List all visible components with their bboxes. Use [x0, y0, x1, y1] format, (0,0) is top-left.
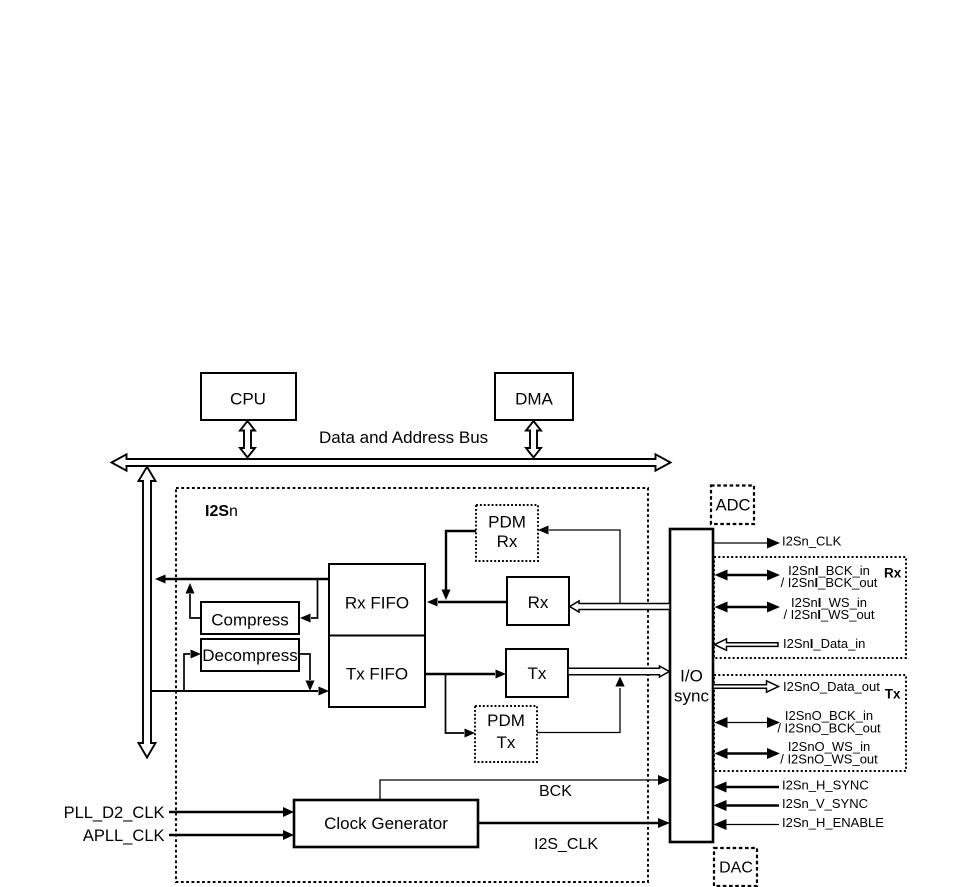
svg-text:I2S_CLK: I2S_CLK	[534, 836, 598, 853]
svg-text:DAC: DAC	[719, 860, 753, 877]
vertical bus double arrow	[139, 467, 156, 758]
svg-text:/ I2SnO_WS_out: / I2SnO_WS_out	[780, 752, 878, 767]
svg-text:/ I2SnO_BCK_out: / I2SnO_BCK_out	[777, 721, 881, 736]
pin: PLL_D2_CLK input	[64, 804, 294, 822]
wire: Rx to Rx FIFO	[427, 598, 507, 607]
svg-text:Tx: Tx	[885, 687, 901, 702]
Data and Address Bus double-headed arrow	[112, 454, 671, 470]
pin: I2SnI_BCK bidirectional	[715, 563, 878, 590]
svg-text:Data and Address Bus: Data and Address Bus	[319, 428, 488, 447]
DMA-to-bus double arrow	[526, 421, 541, 458]
svg-text:Tx FIFO: Tx FIFO	[346, 665, 408, 684]
svg-text:Rx: Rx	[528, 593, 549, 612]
svg-text:CPU: CPU	[230, 390, 266, 409]
pin: I2Sn_H_ENABLE input	[714, 815, 885, 830]
pin: I2Sn_H_SYNC input	[714, 778, 869, 793]
svg-text:/ I2SnI_BCK_out: / I2SnI_BCK_out	[781, 575, 878, 590]
wire: system bus to Decompress input	[184, 650, 201, 692]
pin: I2SnO_BCK bidirectional	[715, 708, 882, 736]
Rx block	[507, 577, 569, 625]
wire: Tx to I/O sync hollow data arrow	[568, 666, 669, 677]
CPU-to-bus double arrow	[240, 421, 255, 458]
wire: I2S_CLK from Clock Generator to I/O sync	[478, 818, 670, 853]
Tx pin group dashed box	[714, 675, 906, 771]
svg-text:Tx: Tx	[528, 664, 547, 683]
ADC block	[711, 486, 754, 525]
PDM Rx block	[476, 505, 538, 561]
DMA block	[495, 373, 573, 420]
svg-text:BCK: BCK	[539, 783, 572, 800]
svg-text:I2Sn_V_SYNC: I2Sn_V_SYNC	[782, 796, 868, 811]
svg-text:I2SnI_Data_in: I2SnI_Data_in	[783, 636, 865, 651]
svg-text:Rx FIFO: Rx FIFO	[345, 594, 409, 613]
svg-text:I2Sn_H_ENABLE: I2Sn_H_ENABLE	[782, 815, 884, 830]
wire: Rx data tap up into PDM Rx	[538, 526, 620, 604]
wire: system bus to Tx FIFO	[152, 687, 330, 696]
wire: I/O sync to Rx hollow data arrow	[570, 601, 670, 612]
CPU block	[201, 373, 296, 420]
svg-text:I2SnO_Data_out: I2SnO_Data_out	[783, 679, 880, 694]
svg-text:I2Sn_CLK: I2Sn_CLK	[782, 534, 842, 549]
svg-text:sync: sync	[674, 687, 709, 706]
wire: PDM Rx output to Rx-RxFIFO wire	[442, 531, 477, 600]
wire: Tx FIFO to Tx	[425, 670, 506, 679]
svg-text:/ I2SnI_WS_out: / I2SnI_WS_out	[783, 607, 874, 622]
svg-text:Rx: Rx	[884, 566, 902, 581]
svg-text:Rx: Rx	[497, 532, 518, 551]
svg-text:ADC: ADC	[716, 497, 751, 515]
wire: branch down to Compress input	[300, 579, 318, 623]
pin: I2SnI_Data_in hollow arrow	[715, 636, 866, 651]
wire: BCK from Clock Generator to I/O sync	[380, 775, 670, 800]
svg-text:DMA: DMA	[515, 390, 553, 409]
PDM Tx block	[475, 706, 537, 762]
Tx block	[506, 649, 568, 697]
svg-text:I2Sn_H_SYNC: I2Sn_H_SYNC	[782, 778, 869, 793]
I2Sn module dashed boundary	[176, 488, 648, 882]
wire: branch down to PDM Tx input	[446, 674, 476, 738]
wire: Compress output up to bus wire	[186, 583, 202, 618]
wire: Rx FIFO output to system bus	[155, 575, 329, 584]
svg-text:PLL_D2_CLK: PLL_D2_CLK	[64, 804, 165, 822]
Compress block	[201, 602, 299, 634]
pin: I2Sn_CLK output	[713, 534, 842, 549]
svg-text:I2Sn: I2Sn	[205, 503, 238, 520]
svg-text:Compress: Compress	[211, 611, 288, 630]
pin: I2Sn_V_SYNC input	[714, 796, 869, 811]
svg-text:Tx: Tx	[497, 733, 516, 752]
svg-text:I/O: I/O	[680, 667, 703, 686]
svg-text:PDM: PDM	[487, 711, 525, 730]
svg-text:Decompress: Decompress	[202, 646, 297, 665]
pin: I2SnO_WS bidirectional	[715, 739, 879, 767]
Decompress block	[201, 639, 299, 671]
Rx pin group dashed box	[714, 557, 906, 658]
pin: I2SnO_Data_out hollow arrow	[713, 679, 880, 694]
wire: Decompress output down to Tx FIFO feed wire	[299, 654, 315, 691]
pin: APLL_CLK input	[83, 827, 294, 845]
I/O sync block	[670, 529, 713, 842]
wire: PDM Tx output up to Tx data wire	[537, 677, 625, 733]
svg-text:Clock Generator: Clock Generator	[324, 814, 448, 833]
Clock Generator block	[294, 800, 478, 847]
pin: I2SnI_WS bidirectional	[715, 595, 875, 622]
svg-text:PDM: PDM	[488, 513, 526, 532]
DAC block	[714, 848, 757, 886]
svg-text:APLL_CLK: APLL_CLK	[83, 827, 165, 845]
Rx FIFO / Tx FIFO block	[329, 564, 425, 707]
